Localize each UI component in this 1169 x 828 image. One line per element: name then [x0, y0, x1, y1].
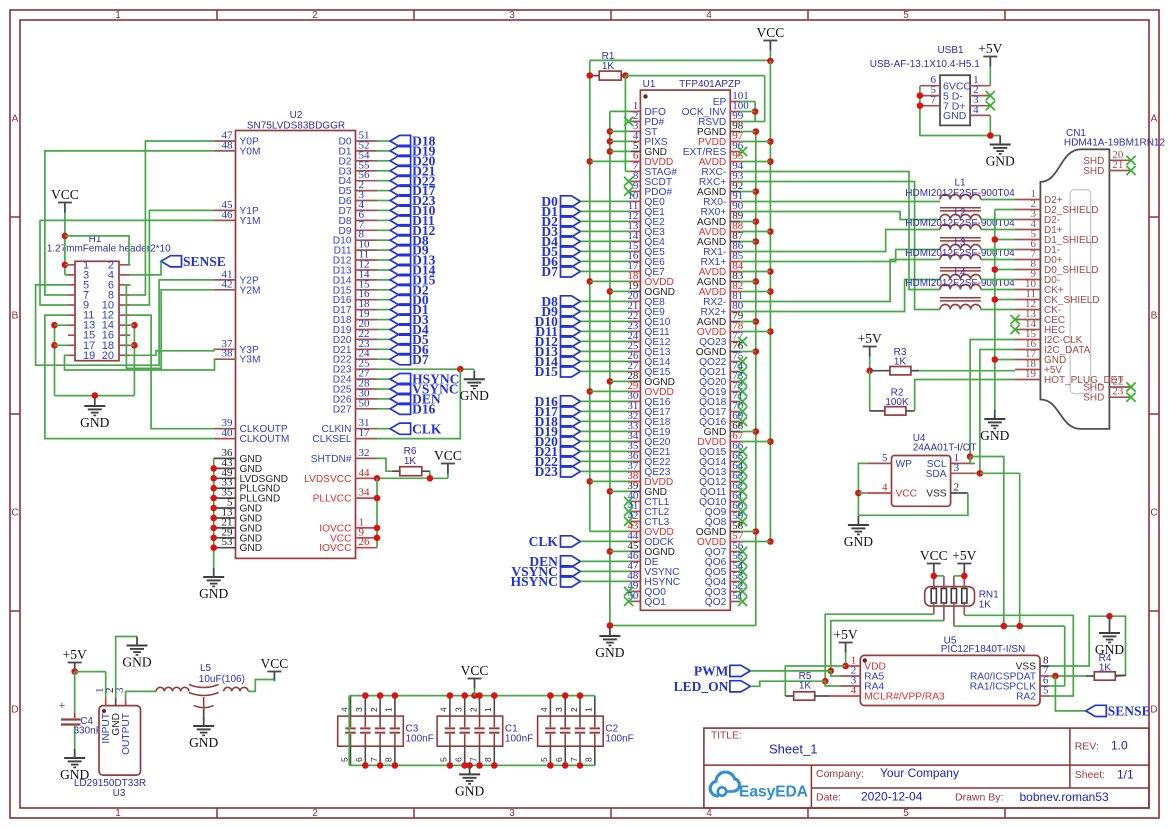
H1 pins: [68, 259, 130, 362]
svg-text:CLK: CLK: [412, 421, 442, 436]
svg-text:OUTPUT: OUTPUT: [121, 713, 132, 755]
ground below L5: [189, 717, 218, 750]
power flag VCC at cap banks: [461, 663, 489, 696]
svg-text:U1: U1: [643, 79, 656, 90]
wire U4 WP VCC to gnd: [855, 463, 867, 515]
svg-text:1: 1: [584, 707, 594, 712]
U2 clock/control pins: [311, 417, 377, 465]
title block: [704, 728, 1149, 808]
svg-text:VCC: VCC: [757, 25, 785, 40]
resistor R1 1K: [590, 51, 626, 80]
svg-text:C: C: [1150, 508, 1157, 519]
svg-text:SN75LVDS83BDGGR: SN75LVDS83BDGGR: [247, 121, 345, 132]
VCC flag above H1: [51, 187, 79, 275]
RN1 resistors: [931, 576, 967, 626]
EasyEDA logo: [710, 772, 808, 800]
svg-text:2: 2: [468, 707, 478, 712]
svg-text:3: 3: [509, 10, 515, 21]
CN1 pins 1-19: [1015, 188, 1123, 386]
common-mode choke L1: [905, 178, 1015, 220]
svg-text:100nF: 100nF: [605, 734, 633, 745]
svg-text:Sheet_1: Sheet_1: [769, 742, 817, 757]
resistor R2 100K: [870, 371, 1015, 415]
svg-text:26: 26: [359, 536, 371, 548]
wire LED_ON to RA4: [750, 681, 840, 686]
svg-text:17: 17: [359, 427, 371, 439]
resistor R3 1K: [866, 347, 1015, 375]
wire SDA branch: [975, 470, 1020, 626]
svg-text:Sheet:: Sheet:: [1075, 769, 1105, 781]
svg-text:4: 4: [851, 685, 857, 697]
U1 net flags D0-D7: [541, 194, 630, 279]
power flag +5V above RN1: [952, 548, 976, 576]
svg-text:IOVCC: IOVCC: [319, 543, 351, 554]
svg-text:VCC: VCC: [51, 187, 79, 202]
svg-text:42: 42: [222, 278, 233, 290]
wire RX2+ to L3 bottom: [740, 280, 940, 312]
svg-text:3: 3: [354, 707, 364, 712]
svg-text:A: A: [1151, 114, 1158, 125]
U2 sync net flags: [377, 372, 459, 417]
svg-text:4: 4: [439, 707, 449, 712]
wire GND rail right of U1: [740, 128, 759, 625]
connector CN1 labels: [1064, 128, 1166, 149]
svg-text:SHD: SHD: [1083, 393, 1104, 404]
svg-text:D23: D23: [535, 464, 558, 479]
svg-text:GND: GND: [986, 154, 1015, 169]
USB1 right pins: [970, 74, 990, 116]
ground below cap banks: [455, 765, 484, 798]
power flag VCC right of L5: [261, 656, 289, 682]
svg-text:1/1: 1/1: [1117, 768, 1134, 782]
ground at U2 D23 net: [460, 370, 489, 403]
svg-text:D15: D15: [535, 364, 558, 379]
U2 left GND bus wire: [210, 458, 217, 568]
svg-text:8: 8: [384, 757, 394, 762]
wire RA0 to R4 and SENSE: [1049, 673, 1085, 711]
svg-text:1K: 1K: [979, 600, 992, 611]
svg-text:QO1: QO1: [644, 597, 666, 608]
wire I2C_DATA down: [980, 350, 1015, 474]
net flag PWM: [694, 664, 751, 679]
svg-text:D: D: [11, 705, 18, 716]
inductor filter L5: [126, 663, 249, 719]
svg-text:19: 19: [83, 350, 95, 362]
svg-text:MCLR#/VPP/RA3: MCLR#/VPP/RA3: [864, 692, 945, 703]
wire I2C-CLK down: [970, 340, 1015, 464]
svg-text:B: B: [12, 311, 19, 322]
U2 power pins: [304, 467, 377, 554]
wires chokes to CN1: [981, 200, 1015, 310]
svg-text:GND: GND: [189, 735, 218, 750]
svg-text:1.0: 1.0: [1111, 739, 1128, 753]
ground below U4: [844, 516, 873, 549]
svg-text:CLKOUTM: CLKOUTM: [240, 434, 290, 445]
wire RN1 tops: [931, 573, 968, 580]
ground below U1: [595, 627, 624, 660]
svg-text:SDA: SDA: [926, 469, 947, 480]
svg-text:GND: GND: [980, 428, 1009, 443]
wire GND rail left of U1: [607, 111, 756, 628]
svg-text:10uF(106): 10uF(106): [199, 674, 245, 685]
wire H1 gnd bottom rail: [55, 392, 135, 399]
connector H1 header body: [47, 234, 171, 361]
wire RX1+ to L2 bottom: [740, 250, 940, 262]
svg-text:5: 5: [903, 808, 909, 819]
U4 pins: [867, 452, 975, 500]
svg-text:44: 44: [359, 467, 371, 479]
svg-text:Y1M: Y1M: [240, 216, 261, 227]
svg-text:GND: GND: [844, 534, 873, 549]
net flag CLK at U2 CLKIN: [377, 421, 442, 436]
wire RN1 res2 to RA5 net: [828, 621, 944, 675]
ground below USB1: [986, 136, 1015, 169]
resistor R4 1K: [1086, 653, 1126, 680]
svg-text:TITLE:: TITLE:: [711, 731, 742, 742]
svg-text:+5V: +5V: [858, 331, 882, 346]
wire LVDSVCC rail: [374, 471, 448, 548]
svg-text:100nF: 100nF: [406, 734, 434, 745]
svg-text:2: 2: [312, 808, 318, 819]
power flag +5V at USB1: [978, 41, 1002, 86]
svg-text:21: 21: [1112, 159, 1123, 171]
svg-text:REV:: REV:: [1075, 741, 1099, 753]
svg-text:6: 6: [554, 757, 564, 762]
svg-text:4: 4: [539, 707, 549, 712]
svg-text:D7: D7: [412, 352, 429, 367]
svg-text:PIC12F1840T-I/SN: PIC12F1840T-I/SN: [941, 644, 1025, 655]
svg-text:53: 53: [222, 536, 234, 548]
svg-text:GND: GND: [199, 586, 228, 601]
svg-text:3: 3: [454, 707, 464, 712]
svg-text:4: 4: [706, 808, 712, 819]
svg-text:1K: 1K: [404, 456, 417, 467]
svg-text:+: +: [59, 700, 65, 712]
svg-text:D16: D16: [412, 401, 435, 416]
connector CN1 outline: [1040, 149, 1109, 429]
svg-text:19: 19: [1025, 368, 1037, 380]
svg-text:5: 5: [439, 757, 449, 762]
svg-text:L1: L1: [954, 178, 966, 189]
connector USB1 body: [870, 45, 980, 125]
wire CLKOUTP to H1 pin12: [130, 315, 213, 429]
U5 left pins: [830, 655, 945, 703]
U5 right pins: [970, 655, 1050, 703]
common-mode choke L3: [905, 238, 1015, 280]
svg-text:Y2M: Y2M: [240, 285, 261, 296]
svg-text:4: 4: [706, 10, 712, 21]
svg-text:GND: GND: [80, 415, 109, 430]
wire RN1 res1 to RA4 net: [822, 614, 934, 684]
wire RN1 res3 SCL line: [954, 623, 1065, 686]
wire VSS to GND R4: [1049, 613, 1125, 676]
wire RX0+ to L1 bottom: [740, 212, 940, 220]
common-mode choke L2: [905, 208, 1015, 250]
svg-text:3: 3: [509, 808, 515, 819]
svg-text:6: 6: [354, 757, 364, 762]
IC U2 SN75LVDS83BDGGR body: [236, 110, 356, 558]
svg-text:1K: 1K: [799, 681, 812, 692]
wire L5 to VCC: [248, 680, 274, 692]
svg-text:WP: WP: [896, 459, 913, 470]
wire cap bank rails: [349, 692, 595, 768]
svg-text:VCC: VCC: [261, 656, 289, 671]
svg-text:330nF: 330nF: [74, 726, 102, 737]
svg-text:8: 8: [483, 757, 493, 762]
wire H1 gnd right: [130, 322, 137, 396]
wire SCL branch: [967, 453, 1004, 626]
svg-text:EasyEDA: EasyEDA: [739, 784, 808, 801]
svg-text:Y3M: Y3M: [240, 355, 261, 366]
wire U4 VSS to gnd: [858, 493, 968, 515]
svg-text:3: 3: [554, 707, 564, 712]
svg-text:VSS: VSS: [926, 489, 947, 500]
svg-text:VCC: VCC: [461, 663, 489, 678]
power flag +5V at U3: [63, 647, 87, 673]
resistor R5 1K: [785, 666, 845, 700]
svg-text:50: 50: [359, 397, 371, 409]
wire +5V node: [71, 668, 105, 713]
svg-text:5: 5: [339, 757, 349, 762]
ground below C4: [60, 749, 89, 782]
svg-text:7: 7: [931, 94, 937, 106]
svg-text:U3: U3: [113, 788, 126, 799]
svg-text:5: 5: [1043, 685, 1049, 697]
svg-text:SENSE: SENSE: [183, 254, 226, 269]
svg-text:+5V: +5V: [952, 548, 976, 563]
wire VCC rail right of U1: [740, 61, 773, 545]
U3 pins: [94, 687, 132, 755]
U1 net flags D8-D15: [535, 294, 631, 379]
svg-text:38: 38: [222, 348, 234, 360]
svg-text:7: 7: [468, 757, 478, 762]
svg-text:Y0M: Y0M: [240, 146, 261, 157]
common-mode choke L4: [905, 268, 1015, 310]
svg-text:HDMI2012F2SF-900T04: HDMI2012F2SF-900T04: [905, 188, 1015, 199]
svg-text:SENSE: SENSE: [1108, 704, 1151, 719]
wire VCC branch to H1 pin2: [65, 236, 130, 265]
svg-text:CLKSEL: CLKSEL: [312, 434, 351, 445]
svg-text:1: 1: [483, 707, 493, 712]
svg-text:4: 4: [339, 707, 349, 712]
wire H1 gnd left: [51, 322, 68, 396]
svg-text:HSYNC: HSYNC: [511, 574, 558, 589]
svg-text:USB1: USB1: [937, 45, 964, 56]
CN1 SHD pins 20 21: [1083, 149, 1135, 177]
svg-text:LD29150DT33R: LD29150DT33R: [74, 778, 146, 789]
svg-text:PLLVCC: PLLVCC: [313, 494, 352, 505]
svg-text:GND: GND: [943, 110, 967, 122]
IC U5 PIC12F1840 body: [860, 636, 1040, 706]
wire EP OCK_INV RSVD join: [740, 102, 758, 122]
svg-text:Company:: Company:: [816, 768, 864, 780]
svg-text:4: 4: [973, 104, 979, 116]
svg-text:2: 2: [369, 707, 379, 712]
U1 net flags D16-D23: [535, 394, 631, 479]
U2 right net label flags D-bus: [377, 134, 436, 367]
svg-text:2: 2: [954, 482, 960, 494]
svg-text:VCC: VCC: [896, 489, 918, 500]
capacitor C4 330nF: [59, 700, 102, 749]
power flag VCC above RN1: [920, 548, 948, 576]
svg-text:6: 6: [454, 757, 464, 762]
wire VCC to R1 and DVDD rail: [590, 58, 774, 65]
svg-text:VCC: VCC: [434, 448, 462, 463]
svg-text:A: A: [12, 114, 19, 125]
svg-text:QO2: QO2: [705, 597, 727, 608]
svg-text:GND: GND: [240, 543, 263, 554]
wire RXC+ to L4 bottom: [740, 182, 940, 310]
wire DVDD rail left of U1: [587, 60, 631, 531]
ground above U3: [122, 637, 151, 670]
svg-text:GND: GND: [455, 783, 484, 798]
svg-text:2: 2: [312, 10, 318, 21]
wire RXC- to L4 top: [740, 172, 940, 290]
svg-text:D: D: [1150, 705, 1157, 716]
svg-text:Drawn By:: Drawn By:: [955, 792, 1003, 804]
svg-text:RA2: RA2: [1016, 692, 1036, 703]
svg-text:3: 3: [954, 462, 960, 474]
svg-text:USB-AF-13.1X10.4-H5.1: USB-AF-13.1X10.4-H5.1: [870, 59, 980, 70]
svg-text:1: 1: [115, 808, 121, 819]
resistor network RN1 body: [925, 587, 999, 611]
svg-text:D7: D7: [541, 264, 558, 279]
svg-text:SHD: SHD: [1083, 166, 1104, 177]
VCC flag top center: [757, 25, 785, 61]
svg-text:+5V: +5V: [834, 627, 858, 642]
net flag SENSE near H1: [161, 254, 226, 269]
svg-text:PWM: PWM: [694, 664, 729, 679]
ground below shield rail: [980, 410, 1009, 443]
wire RN1 res4 RA2 line: [964, 615, 1073, 696]
wire Y3P to H1 pin20: [130, 349, 213, 355]
U2 right data pins: [333, 130, 377, 416]
svg-text:4: 4: [882, 482, 888, 494]
wire Y2P to H1 pin5: [36, 280, 214, 365]
IC U4 24AA01T body: [892, 433, 977, 506]
svg-text:24AA01T-I/OT: 24AA01T-I/OT: [913, 443, 977, 454]
svg-text:LVDSVCC: LVDSVCC: [304, 474, 351, 485]
resistor R6 1K: [377, 446, 430, 476]
svg-text:2020-12-04: 2020-12-04: [861, 790, 923, 804]
capacitor bank C2: [538, 696, 634, 766]
svg-text:L4: L4: [954, 268, 966, 279]
svg-text:GND: GND: [460, 388, 489, 403]
svg-text:5: 5: [539, 757, 549, 762]
CN1 SHD pins 22 23: [1083, 376, 1135, 404]
svg-text:U2: U2: [290, 110, 303, 121]
svg-text:+5V: +5V: [978, 41, 1002, 56]
U1 right pins: [682, 90, 750, 608]
U1 net flags CLK DEN VSYNC HSYNC: [511, 534, 631, 589]
svg-text:L3: L3: [954, 238, 966, 249]
svg-text:32: 32: [359, 447, 370, 459]
svg-text:Your Company: Your Company: [880, 766, 959, 780]
power flag +5V at U5: [834, 627, 858, 669]
ground at U5 right: [1095, 616, 1124, 657]
ground below U2: [199, 568, 228, 601]
svg-text:5: 5: [882, 452, 888, 464]
svg-text:48: 48: [222, 139, 234, 151]
svg-text:8: 8: [584, 757, 594, 762]
svg-text:5: 5: [903, 10, 909, 21]
power flag +5V near R3: [858, 331, 882, 371]
svg-text:B: B: [1151, 311, 1158, 322]
svg-text:Date:: Date:: [816, 792, 841, 804]
svg-text:C: C: [11, 508, 18, 519]
U2 left pins: [214, 130, 290, 555]
wire CLKOUTM to H1 pin11: [45, 315, 214, 439]
svg-text:LED_ON: LED_ON: [674, 679, 729, 694]
svg-text:46: 46: [222, 209, 234, 221]
VCC flag near R6: [434, 448, 462, 478]
wire RX0- to L1 top: [740, 201, 940, 203]
wire Y1M to H1 pin9: [40, 220, 214, 305]
svg-text:GND: GND: [595, 645, 624, 660]
svg-text:1: 1: [115, 10, 121, 21]
wire D23 pin25 to CLKSEL and GND: [377, 366, 474, 439]
svg-text:L2: L2: [954, 208, 966, 219]
wire SENSE to H1 pin4: [130, 261, 161, 275]
ground below H1: [80, 397, 109, 430]
USB1 no-connect D- D+: [986, 91, 995, 110]
wire shield rail: [992, 210, 1016, 411]
U1 left pins: [624, 100, 680, 608]
wire USB1 shell gnd: [917, 86, 1001, 139]
svg-text:40: 40: [222, 427, 234, 439]
svg-text:23: 23: [1112, 386, 1124, 398]
net flag SENSE at U5: [1086, 704, 1151, 719]
USB1 left pins: [920, 74, 972, 122]
wire Y2M to H1 pin6: [126, 285, 213, 369]
svg-text:bobnev.roman53: bobnev.roman53: [1020, 790, 1110, 804]
CN1 no-connect CEC HEC: [1010, 315, 1019, 334]
svg-text:HDM41A-19BM1RN12: HDM41A-19BM1RN12: [1064, 138, 1166, 149]
svg-text:7: 7: [569, 757, 579, 762]
svg-text:CLK: CLK: [529, 534, 559, 549]
svg-text:GND: GND: [122, 655, 151, 670]
wire Y0M to H1 pin7: [45, 151, 214, 295]
IC U3 LD29150DT33R body: [74, 706, 146, 799]
svg-text:VCC: VCC: [920, 548, 948, 563]
net flag LED_ON: [674, 679, 751, 694]
wire PWM to RA5: [750, 671, 840, 676]
capacitor bank C3: [338, 696, 434, 766]
svg-text:100nF: 100nF: [505, 734, 533, 745]
svg-text:2: 2: [569, 707, 579, 712]
svg-text:7: 7: [369, 757, 379, 762]
wire RX1- to L2 top: [740, 230, 940, 252]
svg-text:L5: L5: [200, 663, 212, 674]
IC U1 TFP401APZP body: [640, 79, 741, 610]
wire Y1P to H1 pin10: [130, 210, 213, 305]
svg-text:D27: D27: [333, 404, 352, 415]
wire R1 to STAG# and RSVD: [622, 72, 765, 171]
capacitor bank C1: [437, 696, 533, 766]
svg-text:+5V: +5V: [63, 647, 87, 662]
svg-text:1: 1: [384, 707, 394, 712]
wire Y3M to H1 pin19: [65, 355, 215, 370]
svg-text:SHTDN#: SHTDN#: [311, 454, 352, 465]
svg-text:TFP401APZP: TFP401APZP: [679, 79, 741, 90]
wire U3 gnd up: [116, 637, 137, 699]
wire RX2- to L3 top: [740, 260, 940, 302]
svg-text:20: 20: [102, 350, 114, 362]
svg-text:34: 34: [359, 487, 371, 499]
wire Y0P to H1 pin8: [130, 141, 213, 295]
